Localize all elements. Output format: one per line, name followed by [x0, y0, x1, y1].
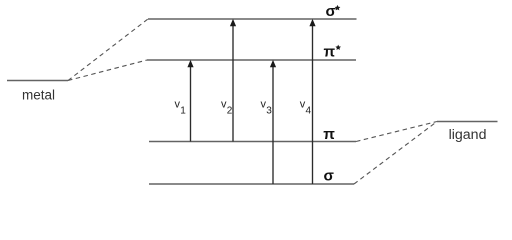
- arrow v3 (sigma to pi-star): [270, 60, 276, 184]
- dashed correlation metal to sigma-star: [68, 19, 148, 81]
- arrow v2 (pi to sigma-star): [230, 19, 236, 142]
- pi-star level line: [147, 59, 356, 61]
- svg-text:4: 4: [306, 106, 312, 117]
- sigma-star level line: [148, 18, 357, 20]
- label v1: [175, 99, 187, 117]
- svg-text:metal: metal: [22, 88, 55, 103]
- dashed correlation metal to pi-star: [68, 60, 147, 81]
- pi level line: [149, 141, 356, 143]
- svg-text:3: 3: [266, 106, 272, 117]
- ligand level line: [437, 121, 498, 123]
- arrow v1 (pi to pi-star): [187, 60, 193, 142]
- svg-text:σ: σ: [324, 167, 335, 184]
- label v4: [300, 99, 312, 117]
- svg-text:σ: σ: [326, 3, 337, 20]
- svg-text:ligand: ligand: [449, 127, 487, 143]
- svg-text:π: π: [323, 126, 335, 143]
- svg-text:1: 1: [180, 106, 186, 117]
- svg-text:π: π: [324, 44, 336, 61]
- sigma level line: [149, 183, 354, 185]
- metal level line: [7, 80, 68, 82]
- svg-text:2: 2: [227, 106, 233, 117]
- label v3: [261, 99, 273, 117]
- arrow v4 (sigma to sigma-star): [309, 19, 315, 184]
- dashed correlation sigma to ligand: [354, 122, 437, 185]
- dashed correlation pi to ligand: [356, 122, 437, 142]
- label v2: [221, 99, 233, 117]
